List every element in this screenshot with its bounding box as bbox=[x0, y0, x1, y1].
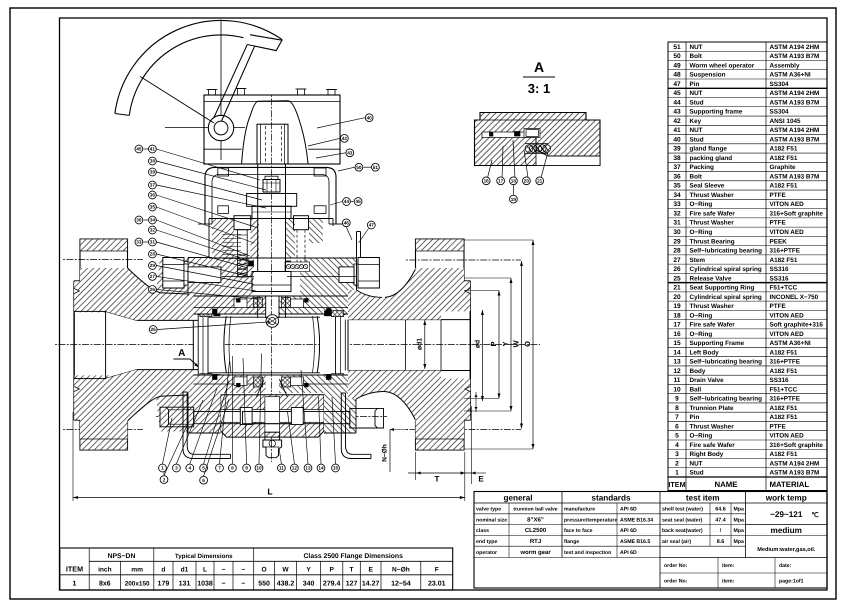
handwheel handle grip bbox=[247, 35, 282, 51]
svg-text:VITON AED: VITON AED bbox=[770, 312, 805, 319]
svg-text:48: 48 bbox=[673, 72, 681, 79]
svg-text:order No:: order No: bbox=[664, 579, 688, 585]
pipe horizontal centerline bbox=[55, 344, 540, 346]
svg-text:ød: ød bbox=[474, 340, 481, 348]
svg-text:23.01: 23.01 bbox=[428, 581, 446, 588]
svg-text:ASTM A193 B7M: ASTM A193 B7M bbox=[770, 470, 820, 477]
svg-text:Stem: Stem bbox=[690, 257, 706, 264]
svg-text:16: 16 bbox=[673, 331, 681, 338]
svg-text:19: 19 bbox=[673, 303, 681, 310]
svg-text:1: 1 bbox=[675, 470, 679, 477]
right flange lower bolt centerline bbox=[406, 429, 521, 431]
svg-text:Stud: Stud bbox=[690, 99, 704, 106]
ball 10 bbox=[224, 316, 320, 373]
stem ball joint detail (see view A) bbox=[266, 315, 279, 328]
handwheel horizontal centerline bbox=[165, 127, 245, 129]
svg-text:Suspension: Suspension bbox=[690, 72, 726, 79]
dimension N-Oh bbox=[382, 428, 409, 472]
svg-text:ANSI 1045: ANSI 1045 bbox=[770, 118, 802, 125]
svg-text:43: 43 bbox=[347, 151, 353, 156]
bonnet lower adapter hatched right bbox=[300, 258, 356, 296]
left pipe bore bbox=[74, 311, 137, 378]
left balloon column bbox=[135, 145, 156, 293]
svg-text:worm gear: worm gear bbox=[519, 550, 551, 556]
body joint nut left 45 bbox=[163, 258, 221, 289]
left body cavity wall bbox=[137, 315, 225, 376]
bonnet block hatched left bbox=[212, 219, 234, 259]
svg-text:316+PTFE: 316+PTFE bbox=[770, 248, 801, 255]
dimension L bbox=[73, 412, 465, 501]
svg-text:5: 5 bbox=[202, 466, 205, 471]
svg-text:NUT: NUT bbox=[690, 127, 703, 134]
worm wheel operator housing 49 bbox=[204, 95, 340, 164]
svg-text:ASTM A36+NI: ASTM A36+NI bbox=[770, 72, 811, 79]
svg-text:Graphite: Graphite bbox=[770, 164, 797, 171]
svg-text:ASTM A36+NI: ASTM A36+NI bbox=[770, 340, 811, 347]
svg-text:127: 127 bbox=[346, 581, 358, 588]
svg-text:33: 33 bbox=[136, 240, 142, 245]
svg-text:SS316: SS316 bbox=[770, 266, 790, 273]
svg-text:30: 30 bbox=[136, 218, 142, 223]
svg-text:seat seal (water): seat seal (water) bbox=[662, 517, 703, 523]
svg-text:face to face: face to face bbox=[564, 528, 593, 534]
svg-text:O−Ring: O−Ring bbox=[690, 229, 713, 236]
svg-text:8”X6”: 8”X6” bbox=[527, 516, 544, 523]
dimension O bbox=[464, 240, 535, 449]
handwheel spoke 1 bbox=[140, 77, 214, 124]
svg-text:29: 29 bbox=[150, 263, 156, 268]
svg-text:9: 9 bbox=[245, 466, 248, 471]
seal sleeve lines bbox=[222, 271, 356, 277]
dimension od bbox=[327, 310, 484, 401]
svg-text:Mpa: Mpa bbox=[734, 517, 744, 523]
svg-text:trunnion ball valve: trunnion ball valve bbox=[513, 507, 557, 513]
svg-text:316+PTFE: 316+PTFE bbox=[770, 396, 801, 403]
svg-text:Body: Body bbox=[690, 368, 706, 375]
svg-text:NPS−DN: NPS−DN bbox=[108, 553, 136, 560]
svg-text:T: T bbox=[435, 475, 440, 484]
left hub upper outline bbox=[128, 268, 189, 294]
svg-text:Thrust Washer: Thrust Washer bbox=[690, 220, 735, 227]
svg-text:47: 47 bbox=[369, 223, 375, 228]
svg-text:39: 39 bbox=[673, 146, 681, 153]
svg-text:179: 179 bbox=[158, 581, 170, 588]
svg-text:10: 10 bbox=[256, 466, 262, 471]
svg-text:51: 51 bbox=[373, 165, 379, 170]
svg-text:50: 50 bbox=[673, 53, 681, 60]
svg-text:4: 4 bbox=[188, 466, 191, 471]
svg-text:316+Soft graphite: 316+Soft graphite bbox=[770, 442, 824, 449]
svg-text:packing gland: packing gland bbox=[690, 155, 733, 162]
svg-text:VITON AED: VITON AED bbox=[770, 201, 805, 208]
bonnet stud right hidden bbox=[294, 216, 309, 267]
svg-text:ASTM A193 B7M: ASTM A193 B7M bbox=[770, 136, 820, 143]
svg-text:3: 3 bbox=[675, 451, 679, 458]
svg-text:11: 11 bbox=[279, 466, 284, 471]
svg-text:35: 35 bbox=[673, 183, 681, 190]
svg-text:13: 13 bbox=[305, 466, 311, 471]
svg-text:item:: item: bbox=[722, 579, 735, 585]
svg-text:Fire safe Wafer: Fire safe Wafer bbox=[690, 322, 736, 329]
svg-text:end type: end type bbox=[476, 539, 497, 545]
svg-text:W: W bbox=[282, 567, 289, 574]
svg-text:Packing: Packing bbox=[690, 164, 714, 171]
trunnion plate 8 bbox=[221, 395, 324, 437]
svg-text:200x150: 200x150 bbox=[125, 581, 150, 588]
svg-text:date:: date: bbox=[779, 563, 792, 569]
svg-text:SS304: SS304 bbox=[770, 109, 790, 116]
svg-text:42: 42 bbox=[673, 118, 681, 125]
right body hub upper section bbox=[348, 269, 441, 320]
svg-text:Thrust Washer: Thrust Washer bbox=[690, 192, 735, 199]
svg-text:31: 31 bbox=[673, 220, 681, 227]
svg-text:21: 21 bbox=[673, 285, 681, 292]
svg-text:34: 34 bbox=[673, 192, 681, 199]
right flange rtj grooves bbox=[465, 289, 470, 392]
svg-text:SS316: SS316 bbox=[770, 275, 790, 282]
svg-text:340: 340 bbox=[303, 581, 315, 588]
svg-text:Self−lubricating bearing: Self−lubricating bearing bbox=[690, 248, 763, 255]
svg-text:3: 3 bbox=[175, 466, 178, 471]
svg-text:ASTM A194 2HM: ASTM A194 2HM bbox=[770, 460, 820, 467]
body upper left block (left body flange boss) bbox=[188, 258, 222, 297]
left seat ring column bbox=[198, 311, 212, 380]
handwheel handle spoke double bbox=[214, 45, 255, 122]
svg-text:Supporting Frame: Supporting Frame bbox=[690, 340, 745, 347]
svg-text:550: 550 bbox=[258, 581, 270, 588]
stem lower bore white column bbox=[266, 296, 279, 318]
svg-text:45: 45 bbox=[673, 90, 681, 97]
svg-text:45: 45 bbox=[355, 199, 361, 204]
svg-text:21: 21 bbox=[537, 179, 543, 184]
svg-text:ASTM A194 2HM: ASTM A194 2HM bbox=[770, 90, 820, 97]
svg-text:operator: operator bbox=[476, 550, 497, 556]
svg-text:Class 2500 Flange Dimensions: Class 2500 Flange Dimensions bbox=[304, 553, 404, 560]
svg-text:Thrust Washer: Thrust Washer bbox=[690, 303, 735, 310]
svg-text:d1: d1 bbox=[181, 567, 189, 574]
svg-text:Typical Dimensions: Typical Dimensions bbox=[175, 553, 233, 560]
svg-text:40: 40 bbox=[367, 115, 373, 120]
svg-text:2: 2 bbox=[675, 460, 679, 467]
svg-text:A182 F51: A182 F51 bbox=[770, 155, 798, 162]
bonnet outline bbox=[209, 219, 356, 259]
housing top bolts bbox=[207, 89, 338, 96]
svg-text:A182 F51: A182 F51 bbox=[770, 257, 798, 264]
svg-text:A182 F51: A182 F51 bbox=[770, 414, 798, 421]
bottom balloon row bbox=[159, 464, 340, 472]
svg-text:W: W bbox=[511, 340, 520, 348]
svg-text:Stud: Stud bbox=[690, 470, 704, 477]
svg-text:A182 F51: A182 F51 bbox=[770, 349, 798, 356]
svg-text:316+Soft graphite: 316+Soft graphite bbox=[770, 210, 824, 217]
svg-text:E: E bbox=[368, 567, 373, 574]
right body cavity wall bbox=[320, 315, 470, 376]
svg-text:work temp: work temp bbox=[765, 494, 807, 503]
svg-text:shell test (water): shell test (water) bbox=[662, 507, 703, 513]
svg-text:ASTM A194 2HM: ASTM A194 2HM bbox=[770, 127, 820, 134]
svg-text:NUT: NUT bbox=[690, 460, 703, 467]
svg-text:ASME B16.5: ASME B16.5 bbox=[620, 539, 650, 545]
bonnet lower adapter hatched left bbox=[222, 258, 254, 296]
bonnet stud left 40 bbox=[234, 216, 251, 277]
svg-text:T: T bbox=[350, 567, 354, 574]
svg-text:8x6: 8x6 bbox=[99, 581, 111, 588]
svg-text:14.27: 14.27 bbox=[362, 581, 380, 588]
svg-text:47: 47 bbox=[673, 81, 681, 88]
svg-text:SS304: SS304 bbox=[770, 81, 790, 88]
svg-text:1038: 1038 bbox=[197, 581, 213, 588]
trunnion nut left 2 bbox=[240, 408, 252, 425]
svg-text:E: E bbox=[478, 475, 484, 484]
svg-text:order No:: order No: bbox=[664, 563, 688, 569]
seat spring X-sections lower bbox=[234, 377, 304, 387]
svg-text:36: 36 bbox=[673, 173, 681, 180]
svg-text:RTJ: RTJ bbox=[530, 538, 541, 545]
svg-text:Seal Sleeve: Seal Sleeve bbox=[690, 183, 725, 190]
balloon 25 bbox=[149, 326, 157, 334]
stud spring coils bbox=[238, 254, 248, 275]
svg-text:A182 F51: A182 F51 bbox=[770, 368, 798, 375]
o-ring dots lower bbox=[213, 375, 332, 380]
svg-text:27: 27 bbox=[150, 274, 156, 279]
svg-text:64.6: 64.6 bbox=[715, 507, 726, 513]
specification title block table bbox=[474, 492, 827, 589]
left balloon column leaders bbox=[156, 149, 266, 299]
svg-text:Y: Y bbox=[501, 341, 510, 346]
svg-text:38: 38 bbox=[150, 159, 156, 164]
svg-text:API 6D: API 6D bbox=[620, 550, 637, 556]
stem 27 bbox=[252, 164, 291, 318]
dimension od1 bbox=[417, 320, 427, 369]
svg-text:18: 18 bbox=[511, 179, 517, 184]
trunnion nut right bbox=[291, 408, 303, 425]
svg-text:ASTM A193 B7M: ASTM A193 B7M bbox=[770, 53, 820, 60]
suspension bar 48 bbox=[357, 232, 383, 298]
svg-text:A: A bbox=[178, 348, 185, 359]
right seat o-ring black bbox=[325, 311, 331, 380]
svg-text:O−Ring: O−Ring bbox=[690, 433, 713, 440]
svg-text:1: 1 bbox=[161, 466, 164, 471]
left body hub upper section bbox=[106, 258, 194, 321]
svg-text:2: 2 bbox=[163, 477, 166, 482]
svg-text:PEEK: PEEK bbox=[770, 238, 788, 245]
svg-text:Seat Supporting Ring: Seat Supporting Ring bbox=[690, 285, 755, 292]
svg-text:pressure/temperature: pressure/temperature bbox=[564, 517, 617, 523]
svg-text:6: 6 bbox=[675, 423, 679, 430]
svg-text:−: − bbox=[241, 567, 245, 574]
svg-text:VITON AED: VITON AED bbox=[770, 229, 805, 236]
svg-text:item:: item: bbox=[722, 563, 735, 569]
left seat o-ring black bbox=[214, 311, 220, 380]
svg-text:12−54: 12−54 bbox=[391, 581, 411, 588]
svg-text:INCONEL X−750: INCONEL X−750 bbox=[770, 294, 819, 301]
svg-text:28: 28 bbox=[150, 252, 156, 257]
svg-text:50: 50 bbox=[356, 165, 362, 170]
right body hub lower section bbox=[348, 371, 441, 421]
svg-text:Self−lubricating bearing: Self−lubricating bearing bbox=[690, 359, 763, 366]
section A marker bbox=[174, 348, 199, 367]
svg-text:7: 7 bbox=[675, 414, 679, 421]
housing dome bbox=[242, 101, 308, 164]
svg-text:Fire safe Wafer: Fire safe Wafer bbox=[690, 442, 736, 449]
svg-text:9: 9 bbox=[675, 396, 679, 403]
svg-text:Assembly: Assembly bbox=[770, 62, 800, 69]
trunnion stud centerline bbox=[156, 415, 387, 417]
svg-text:34: 34 bbox=[150, 218, 156, 223]
svg-text:8.6: 8.6 bbox=[717, 539, 725, 545]
svg-text:131: 131 bbox=[179, 581, 191, 588]
dimension T bbox=[408, 452, 472, 484]
svg-text:37: 37 bbox=[673, 164, 681, 171]
svg-text:14: 14 bbox=[318, 466, 324, 471]
svg-text:A182 F51: A182 F51 bbox=[770, 146, 798, 153]
detail view A section block bbox=[475, 113, 601, 204]
worm shaft hub bbox=[208, 115, 233, 140]
svg-text:A182 F51: A182 F51 bbox=[770, 451, 798, 458]
svg-text:35: 35 bbox=[150, 205, 156, 210]
left body hub lower section bbox=[106, 370, 194, 432]
svg-text:flange: flange bbox=[564, 539, 579, 545]
svg-text:F51+TCC: F51+TCC bbox=[770, 285, 798, 292]
svg-text:17: 17 bbox=[673, 322, 681, 329]
right flange upper bolt centerline bbox=[406, 259, 521, 261]
svg-text:O: O bbox=[523, 341, 532, 347]
body bottom plate hatched bbox=[193, 375, 348, 393]
svg-text:A182 F51: A182 F51 bbox=[770, 405, 798, 412]
left flange body A182 F51 bbox=[74, 239, 127, 450]
balloon 25 leader bbox=[158, 322, 268, 330]
dimension Y bbox=[464, 278, 513, 411]
svg-text:15: 15 bbox=[673, 340, 681, 347]
svg-text:O−Ring: O−Ring bbox=[690, 312, 713, 319]
svg-text:44: 44 bbox=[344, 199, 350, 204]
svg-text:API 6D: API 6D bbox=[620, 507, 637, 513]
svg-text:279.4: 279.4 bbox=[323, 581, 341, 588]
svg-text:NAME: NAME bbox=[715, 480, 738, 489]
svg-text:15: 15 bbox=[333, 466, 339, 471]
svg-text:−: − bbox=[222, 567, 226, 574]
svg-text:−29~121: −29~121 bbox=[770, 510, 803, 519]
svg-text:O−Ring: O−Ring bbox=[690, 331, 713, 338]
svg-text:16: 16 bbox=[484, 179, 490, 184]
svg-text:25: 25 bbox=[151, 327, 157, 332]
svg-text:A: A bbox=[534, 59, 544, 75]
svg-text:38: 38 bbox=[673, 155, 681, 162]
svg-text:43: 43 bbox=[673, 109, 681, 116]
svg-text:Medium:water,gas,oil.: Medium:water,gas,oil. bbox=[757, 546, 816, 553]
svg-text:P: P bbox=[489, 341, 498, 346]
svg-text:29: 29 bbox=[673, 238, 681, 245]
BOM parts list table bbox=[668, 42, 827, 491]
svg-text:30: 30 bbox=[673, 229, 681, 236]
svg-text:26: 26 bbox=[673, 266, 681, 273]
svg-text:14: 14 bbox=[673, 349, 681, 356]
svg-text:mm: mm bbox=[131, 567, 143, 574]
balloon 6 bbox=[204, 400, 229, 477]
svg-text:valve type: valve type bbox=[476, 507, 501, 513]
svg-text:18: 18 bbox=[673, 312, 681, 319]
svg-text:NUT: NUT bbox=[690, 90, 703, 97]
svg-text:ASME B16.34: ASME B16.34 bbox=[620, 517, 653, 523]
svg-text:Cylindrical spiral spring: Cylindrical spiral spring bbox=[690, 266, 762, 273]
stem nut bbox=[263, 176, 280, 192]
svg-text:manufacture: manufacture bbox=[564, 507, 595, 513]
svg-text:back seat(water): back seat(water) bbox=[662, 528, 703, 534]
svg-text:Pin: Pin bbox=[690, 81, 700, 88]
right flange body bbox=[416, 239, 471, 450]
svg-text:d: d bbox=[161, 567, 165, 574]
svg-text:F51+TCC: F51+TCC bbox=[770, 386, 798, 393]
dimension W bbox=[511, 261, 523, 429]
svg-text:13: 13 bbox=[673, 359, 681, 366]
svg-text:ASTM A193 B7M: ASTM A193 B7M bbox=[770, 173, 820, 180]
svg-text:438.2: 438.2 bbox=[277, 581, 295, 588]
svg-text:SS316: SS316 bbox=[770, 377, 790, 384]
svg-text:API 6D: API 6D bbox=[620, 528, 637, 534]
svg-text:28: 28 bbox=[673, 248, 681, 255]
svg-text:Thrust Bearing: Thrust Bearing bbox=[690, 238, 735, 245]
svg-text:6: 6 bbox=[202, 478, 205, 483]
svg-text:4: 4 bbox=[675, 442, 679, 449]
svg-text:A182 F51: A182 F51 bbox=[770, 183, 798, 190]
svg-text:Bolt: Bolt bbox=[690, 173, 703, 180]
svg-text:VITON AED: VITON AED bbox=[770, 331, 805, 338]
svg-text:42: 42 bbox=[342, 136, 348, 141]
svg-text:NUT: NUT bbox=[690, 44, 703, 51]
svg-text:ASTM A194 2HM: ASTM A194 2HM bbox=[770, 44, 820, 51]
gland flange 39 bbox=[247, 194, 297, 207]
lower right body boss bbox=[324, 393, 356, 433]
svg-text:PTFE: PTFE bbox=[770, 192, 786, 199]
svg-text:Fire safe Wafer: Fire safe Wafer bbox=[690, 210, 736, 217]
svg-text:51: 51 bbox=[673, 44, 681, 51]
svg-text:inch: inch bbox=[98, 567, 112, 574]
trunnion stud right bbox=[243, 408, 384, 428]
svg-text:46: 46 bbox=[344, 221, 350, 226]
svg-text:Y: Y bbox=[306, 567, 311, 574]
svg-text:39: 39 bbox=[150, 170, 156, 175]
svg-text:Ball: Ball bbox=[690, 386, 702, 393]
left flange upper bolt centerline bbox=[63, 259, 143, 261]
svg-text:32: 32 bbox=[150, 228, 156, 233]
stem top in dome bbox=[257, 124, 288, 164]
svg-text:316+PTFE: 316+PTFE bbox=[770, 359, 801, 366]
svg-text:7: 7 bbox=[218, 466, 221, 471]
svg-text:25: 25 bbox=[673, 275, 681, 282]
svg-text:32: 32 bbox=[673, 210, 681, 217]
dimension E bbox=[461, 406, 486, 484]
frame top bolts bbox=[218, 168, 326, 213]
body joint nut right bbox=[339, 258, 379, 289]
suspension foot right bbox=[341, 393, 371, 459]
detail view A title bbox=[523, 59, 555, 96]
svg-text:L: L bbox=[267, 487, 272, 497]
svg-text:3: 1: 3: 1 bbox=[528, 81, 550, 96]
svg-text:O−Ring: O−Ring bbox=[690, 201, 713, 208]
svg-text:Mpa: Mpa bbox=[734, 539, 744, 545]
svg-text:−: − bbox=[241, 581, 245, 588]
svg-text:Release Valve: Release Valve bbox=[690, 275, 732, 282]
svg-text:P: P bbox=[329, 567, 334, 574]
svg-text:VITON AED: VITON AED bbox=[770, 433, 805, 440]
svg-text:36: 36 bbox=[150, 193, 156, 198]
svg-text:47.4: 47.4 bbox=[715, 517, 726, 523]
svg-text:Self−lubricating bearing: Self−lubricating bearing bbox=[690, 396, 763, 403]
svg-text:27: 27 bbox=[673, 257, 681, 264]
svg-text:Right Body: Right Body bbox=[690, 451, 724, 458]
svg-text:Left Body: Left Body bbox=[690, 349, 720, 356]
svg-text:N−Øh: N−Øh bbox=[382, 444, 389, 462]
